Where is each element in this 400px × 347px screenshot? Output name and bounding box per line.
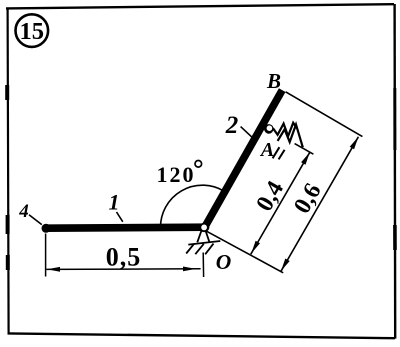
extension from B [286,92,363,137]
ground line [188,241,220,245]
svg-text:O: O [216,250,232,274]
dimension line 0,6 shaft [281,137,358,271]
leader from 2 [241,127,253,138]
svg-text:15: 15 [20,18,45,45]
svg-text:0,5: 0,5 [106,242,142,271]
extension line below point 4 [45,234,47,277]
arrowhead top of 0,4 [301,152,310,165]
arrowhead top of 0,6 [350,137,359,150]
svg-text:4: 4 [18,201,29,222]
elbow patch at joint [200,223,209,232]
rod 1 (horizontal thick bar) [45,227,207,228]
svg-text:120: 120 [157,162,196,187]
svg-text:2: 2 [225,112,239,139]
zigzag extension from A (lower) [278,125,303,148]
arrowhead left [47,267,60,272]
end dot at point 4 [42,224,51,233]
zigzag leg strokes [273,147,280,158]
leader from 4 [29,215,42,225]
zigzag extension from A (upper) [273,123,297,136]
arrowhead bottom of 0,4 [251,241,260,254]
point A (white circle on rod 2) [264,124,274,134]
problem number badge 15 [16,14,49,47]
rod 2 (inclined thick bar O to B) [204,90,282,229]
extension stub at A dimension end [295,144,314,155]
arrowhead bottom of 0,6 [281,259,290,272]
leader from 1 [117,212,123,222]
extension line below O [202,253,204,278]
dimension line 0,5 shaft [46,268,200,271]
hatching [186,244,194,254]
dimension line 0,4 shaft [251,152,310,254]
diagonal extension from O (perpendicular to rod 2) [206,231,283,273]
pivot O (white circle) [200,224,208,232]
arrowhead right [183,267,196,272]
svg-text:B: B [266,69,281,93]
svg-text:1: 1 [109,190,120,215]
angle arc 120 degrees [161,185,224,227]
pin support triangle under O [186,231,220,255]
